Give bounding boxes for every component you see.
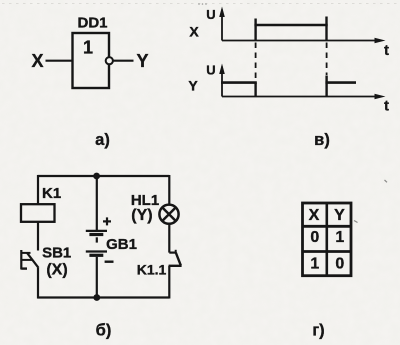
svg-text:Y: Y: [188, 77, 198, 93]
svg-text:Y: Y: [334, 207, 345, 224]
svg-text:а): а): [95, 131, 110, 149]
svg-text:(Y): (Y): [131, 207, 152, 224]
svg-text:GB1: GB1: [106, 236, 137, 253]
svg-text:б): б): [96, 321, 112, 339]
svg-text:t: t: [384, 42, 389, 59]
svg-text:(X): (X): [46, 262, 67, 279]
svg-text:DD1: DD1: [77, 15, 107, 32]
svg-text:K1.1: K1.1: [137, 262, 167, 278]
svg-text:t: t: [384, 98, 389, 115]
svg-text:Y: Y: [136, 51, 148, 71]
svg-text:г): г): [312, 321, 324, 339]
svg-text:X: X: [189, 24, 199, 40]
svg-text:0: 0: [310, 229, 319, 246]
svg-text:1: 1: [335, 229, 344, 246]
svg-text:U: U: [206, 62, 215, 77]
svg-text:1: 1: [310, 255, 319, 272]
svg-text:SB1: SB1: [42, 245, 71, 262]
svg-text:X: X: [31, 51, 43, 71]
svg-text:1: 1: [83, 38, 93, 58]
svg-text:K1: K1: [42, 185, 61, 202]
svg-text:0: 0: [335, 255, 344, 272]
svg-text:U: U: [206, 7, 215, 22]
svg-text:в): в): [314, 131, 330, 149]
svg-text:X: X: [309, 207, 320, 224]
